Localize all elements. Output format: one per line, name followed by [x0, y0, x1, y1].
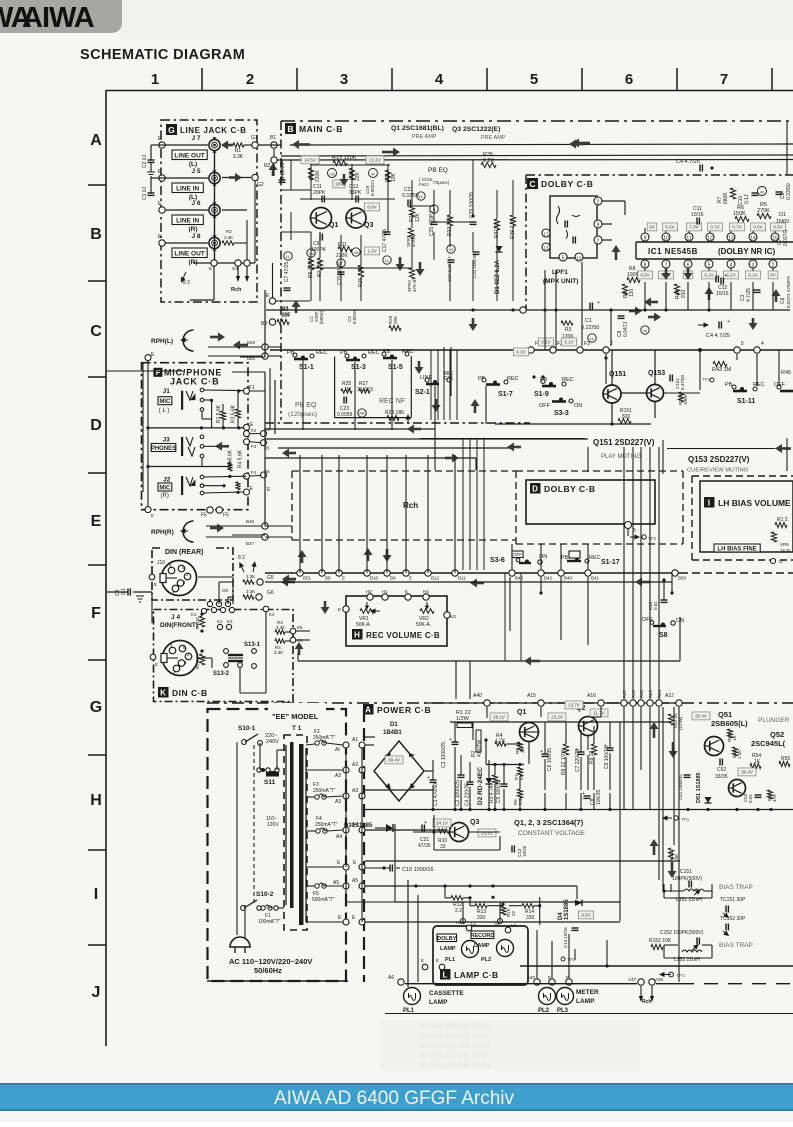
- svg-text:10/35: 10/35: [522, 845, 527, 857]
- wire J1 bottom rail: [148, 426, 247, 429]
- voltage 21.6V: [366, 156, 384, 164]
- svg-text:D1 02Z 6.2A: D1 02Z 6.2A: [495, 259, 501, 294]
- svg-text:A: A: [365, 706, 371, 715]
- svg-text:K: K: [160, 689, 166, 698]
- svg-text:LINE JACK C·B: LINE JACK C·B: [180, 126, 246, 135]
- capacitor C151 0.47/50: [670, 374, 685, 390]
- capacitor C14 10/16: [563, 927, 579, 948]
- arrow into jack J7: [221, 141, 233, 150]
- svg-text:A5: A5: [352, 878, 358, 884]
- wire q51 rail: [686, 808, 772, 811]
- arrows up down row573: [298, 548, 392, 614]
- wire power rails: [365, 722, 680, 922]
- svg-text:FeCr: FeCr: [419, 182, 430, 187]
- svg-text:A2: A2: [352, 762, 358, 768]
- svg-text:PRE AMP: PRE AMP: [481, 135, 506, 141]
- resistor R3 5.6K mic: [231, 391, 241, 430]
- svg-text:G1: G1: [251, 135, 258, 141]
- svg-text:1N60: 1N60: [776, 219, 789, 225]
- svg-text:29.1V: 29.1V: [493, 715, 505, 720]
- svg-text:100: 100: [282, 312, 291, 318]
- wire row573 to S-switch row: [512, 544, 588, 569]
- label Rch: [403, 501, 418, 510]
- nodes A40 A15 A16 A17 A19 A18 A25 A24 A2J: [424, 689, 682, 706]
- wire rail y310: [266, 307, 790, 313]
- transistor Q153: [647, 370, 666, 402]
- wire main left bus verticals: [265, 290, 275, 526]
- nodes B43 B42 B40 B41 B39: [509, 570, 687, 581]
- capacitor C6 right edge: [780, 276, 791, 308]
- inductor L151 22mH: [676, 887, 704, 903]
- resistor SPR3 47K-B: [407, 268, 417, 292]
- arrow right main: [382, 148, 400, 157]
- wire rail y966: [520, 940, 793, 968]
- wire A5 rail lamp: [365, 884, 577, 887]
- svg-text:11: 11: [686, 236, 691, 242]
- svg-text:DIN(FRONT): DIN(FRONT): [160, 622, 198, 629]
- circled M right: [758, 187, 767, 196]
- svg-text:12K: 12K: [415, 212, 421, 222]
- svg-text:C7 47/25: C7 47/25: [284, 261, 290, 282]
- test point TP2: [630, 534, 657, 541]
- svg-text:Q3: Q3: [470, 819, 479, 826]
- voltage 18V: [333, 180, 345, 188]
- nodes B46 B45 RPH: [208, 340, 281, 361]
- svg-text:E: E: [436, 958, 439, 963]
- svg-text:R2: R2: [264, 163, 271, 169]
- resistor R2 470/2W: [471, 730, 483, 757]
- svg-text:TC151 30P: TC151 30P: [720, 897, 746, 903]
- svg-text:LPF1: LPF1: [552, 269, 568, 276]
- svg-text:2SC945L(: 2SC945L(: [751, 739, 786, 748]
- switch S1-11: [725, 382, 793, 405]
- svg-text:PL2: PL2: [481, 957, 491, 963]
- resistor R151 820: [618, 408, 632, 424]
- svg-text:10/16: 10/16: [716, 291, 729, 297]
- svg-text:DOLBY C·B: DOLBY C·B: [541, 179, 593, 189]
- svg-text:17: 17: [543, 232, 549, 237]
- wire LPF1 out: [602, 201, 625, 240]
- diode D51 1S1885: [696, 772, 712, 803]
- svg-text:F6: F6: [201, 513, 207, 519]
- svg-text:0.7V: 0.7V: [710, 225, 719, 230]
- wire 661 verticals: [456, 573, 521, 699]
- box C DOLBY C.B: [526, 175, 793, 310]
- svg-text:F4: F4: [251, 470, 257, 475]
- wire y661 horizontal: [298, 617, 680, 666]
- resistor R35 2.2K: [481, 152, 496, 168]
- svg-text:B: B: [90, 226, 102, 243]
- switch S1-9: [532, 375, 573, 398]
- wire right edge verticals: [779, 121, 787, 471]
- label K1 node: [191, 608, 207, 617]
- svg-text:K2: K2: [217, 619, 223, 624]
- svg-text:G6: G6: [267, 590, 274, 596]
- svg-text:A37: A37: [628, 977, 637, 982]
- transformer T1: [284, 725, 307, 930]
- svg-text:J1: J1: [163, 388, 171, 395]
- svg-text:A20: A20: [527, 975, 536, 980]
- svg-text:LL: LL: [385, 258, 390, 263]
- resistor 3.3K to G5: [243, 574, 274, 585]
- wire IC bottom stubs: [645, 282, 773, 310]
- svg-text:120V: 120V: [267, 822, 279, 828]
- left frame border: [105, 90, 107, 1046]
- arrow up left S1-7: [471, 399, 480, 413]
- svg-text:MIC: MIC: [159, 399, 171, 405]
- resistor R9 220K: [308, 168, 321, 182]
- resistor R1 22 1/2W box: [456, 710, 472, 728]
- capacitor C31 100/25: [472, 252, 480, 278]
- capacitor C4 4.7/25: [676, 159, 714, 172]
- node B3 resistor R3 100: [261, 307, 290, 327]
- switch S8: [642, 617, 684, 639]
- svg-text:LL: LL: [419, 194, 424, 199]
- wire F left rail: [146, 361, 149, 509]
- svg-text:AC 110~120V/220~240V: AC 110~120V/220~240V: [229, 957, 312, 966]
- arrow up main left: [292, 300, 301, 313]
- svg-text:22: 22: [511, 910, 516, 916]
- resistor R21 10K: [385, 170, 397, 182]
- svg-text:TP1: TP1: [702, 377, 711, 382]
- svg-text:B59: B59: [678, 576, 687, 581]
- svg-text:B12: B12: [431, 576, 440, 581]
- svg-text:100mA"T": 100mA"T": [258, 919, 281, 925]
- arrows rch bottom: [639, 986, 654, 1005]
- resistor R4 5.6K mic: [235, 449, 243, 490]
- arrows dolby bottom extra: [629, 287, 781, 330]
- test point TP1 lower: [662, 815, 690, 822]
- wire main cluster horizontals: [281, 165, 473, 268]
- AC plug symbol: [230, 937, 250, 953]
- svg-text:0.027G: 0.027G: [783, 229, 789, 246]
- svg-text:D1: D1: [779, 212, 786, 218]
- svg-text:A6: A6: [388, 975, 394, 981]
- fuse F5 500mA T: [306, 878, 365, 903]
- resistor R7 5K: [514, 767, 524, 780]
- svg-text:+: +: [727, 319, 730, 325]
- svg-text:S13-2: S13-2: [213, 671, 230, 677]
- box L LAMP C.B rounded: [433, 926, 528, 985]
- voltage 1.2V: [364, 247, 379, 255]
- svg-text:LN: LN: [353, 250, 358, 255]
- resistor R9 33: [589, 726, 597, 790]
- wire lamp feeds: [346, 748, 395, 922]
- resistor R8 22 1/2W: [561, 722, 569, 790]
- svg-text:5: 5: [741, 341, 744, 347]
- voltage 30.4V bridge: [385, 756, 403, 764]
- IC1 NE545B body: [636, 242, 793, 259]
- svg-text:1.2V: 1.2V: [367, 249, 376, 254]
- pin 13: [542, 243, 550, 251]
- svg-text:Q153: Q153: [648, 370, 665, 377]
- svg-text:30.4V: 30.4V: [741, 770, 753, 775]
- svg-text:14: 14: [750, 236, 756, 242]
- svg-text:J 6: J 6: [191, 200, 200, 207]
- svg-text:M: M: [371, 172, 374, 177]
- svg-text:H3: H3: [450, 614, 456, 619]
- svg-text:S10-2: S10-2: [256, 891, 274, 898]
- voltage 30.4V q52: [738, 768, 756, 776]
- svg-text:A15: A15: [527, 693, 536, 699]
- svg-text:MAIN C·B: MAIN C·B: [299, 124, 343, 134]
- svg-text:6.1V: 6.1V: [704, 273, 713, 278]
- transistor Q51: [705, 737, 724, 756]
- svg-text:K3: K3: [227, 619, 233, 624]
- svg-text:LAMP C·B: LAMP C·B: [454, 970, 499, 980]
- svg-text:J 4: J 4: [171, 614, 180, 621]
- svg-text:LL: LL: [590, 336, 595, 341]
- label Q51 2SB605(L): [711, 710, 748, 728]
- capacitor C11 20PK: [313, 184, 326, 203]
- svg-text:33: 33: [440, 844, 446, 850]
- nodes B51..B11: [297, 570, 466, 581]
- arrow left row573: [282, 575, 484, 588]
- transistor Q151: [603, 371, 626, 403]
- svg-text:A2J: A2J: [665, 693, 674, 699]
- svg-text:POWER C·B: POWER C·B: [377, 705, 431, 715]
- svg-text:7: 7: [720, 71, 728, 88]
- wire dolby mid verticals: [545, 262, 757, 386]
- lamp PL3 meter: [557, 988, 574, 1015]
- wire top arrow line: [290, 139, 793, 150]
- resistor R37 10: [494, 219, 500, 238]
- Rch arrow bottom: [231, 266, 249, 293]
- svg-text:C9 100/16: C9 100/16: [604, 746, 610, 769]
- label Q123 constant voltage: [514, 818, 585, 837]
- label BIAS TRAP 1: [719, 884, 753, 891]
- svg-text:PHONES: PHONES: [151, 446, 176, 452]
- node B2: [264, 157, 277, 169]
- svg-text:1: 1: [151, 71, 159, 88]
- svg-text:C2 1000/25: C2 1000/25: [455, 780, 461, 806]
- resistor R13 330: [470, 896, 505, 921]
- switch S11: [257, 768, 279, 786]
- svg-text:S10-1: S10-1: [238, 725, 256, 732]
- jack J7 LINE OUT (L): [158, 135, 220, 168]
- nodes H2 H1 E H4 H3 E: [338, 589, 456, 619]
- svg-text:Q1: Q1: [329, 222, 338, 229]
- resistor R52 1.2K: [732, 747, 742, 759]
- svg-text:(L): (L): [189, 161, 197, 168]
- rec/play head RPH(L): [151, 330, 248, 351]
- switch S10-1: [238, 725, 262, 745]
- capacitor C29 100/35: [469, 192, 477, 224]
- svg-text:IC1 NE545B: IC1 NE545B: [648, 247, 698, 256]
- svg-text:500mA"T": 500mA"T": [312, 897, 335, 903]
- resistor R7 150: [317, 258, 323, 277]
- diode D4 1S1885: [558, 886, 582, 920]
- box B MAIN C.B top border: [281, 121, 793, 420]
- wire lamp row: [405, 983, 793, 985]
- node A2 row: [306, 762, 365, 779]
- svg-text:DIN (REAR): DIN (REAR): [165, 549, 204, 556]
- capacitor C152 100PK 500V: [660, 930, 704, 945]
- resistor R6 150K: [733, 205, 749, 222]
- wire center bus verticals: [431, 350, 457, 420]
- svg-text:S3-3: S3-3: [554, 410, 569, 417]
- svg-text:3.3K: 3.3K: [274, 650, 283, 655]
- svg-text:0.001K: 0.001K: [352, 310, 357, 324]
- switch S1-7: [478, 376, 519, 398]
- svg-text:0.1J: 0.1J: [744, 194, 750, 204]
- svg-text:13: 13: [728, 236, 734, 242]
- svg-text:DOLBY C·B: DOLBY C·B: [544, 484, 596, 494]
- box F MIC/PHONE JACK C.B: [142, 363, 249, 510]
- wire power verticals: [473, 722, 620, 921]
- junction node cluster: [207, 601, 234, 612]
- arrows dolby: [612, 245, 693, 280]
- svg-text:B41: B41: [591, 576, 600, 581]
- svg-text:B9: B9: [390, 576, 396, 581]
- capacitor C12 10/16: [716, 278, 729, 298]
- svg-text:47K-B: 47K-B: [412, 279, 417, 292]
- wire node row y573: [265, 572, 680, 574]
- voltage 6.2V 6.1V boxes left: [513, 338, 576, 356]
- svg-text:23.2V: 23.2V: [551, 715, 563, 720]
- svg-text:H: H: [90, 792, 102, 809]
- svg-text:G: G: [90, 699, 102, 716]
- svg-text:A5: A5: [333, 880, 339, 886]
- transistor Q2 power: [576, 705, 598, 736]
- svg-text:3.3K: 3.3K: [224, 235, 233, 240]
- resistor R51 1K: [668, 713, 683, 730]
- svg-text:LAMP: LAMP: [474, 943, 490, 949]
- label A POWER C.B: [363, 704, 431, 715]
- capacitor C23 0.0039 PP: [337, 397, 366, 419]
- svg-text:D1: D1: [390, 722, 398, 728]
- switch row S1-3: [340, 350, 380, 371]
- svg-text:G: G: [168, 125, 175, 135]
- svg-text:F1: F1: [249, 385, 255, 391]
- jack J3 PHONES: [151, 435, 204, 458]
- svg-text:( L ): ( L ): [159, 408, 169, 414]
- svg-text:270K: 270K: [757, 208, 770, 214]
- svg-text:B47: B47: [246, 541, 255, 546]
- node 5 dolby D: [625, 522, 637, 537]
- node E row power: [306, 860, 365, 870]
- resistor R4 3.3K din: [274, 637, 303, 655]
- svg-text:2: 2: [246, 71, 254, 88]
- box LPF1 sub-circuit: [550, 196, 597, 258]
- wire Q3 loop: [413, 815, 500, 850]
- svg-text:H1: H1: [382, 589, 388, 594]
- wire J1 contacts: [202, 389, 243, 428]
- capacitor C8 0.047J: [617, 316, 649, 337]
- svg-text:6.1V: 6.1V: [564, 340, 573, 345]
- rec/play head RPH(R): [151, 521, 224, 542]
- svg-text:Q1 2SC1681(BL): Q1 2SC1681(BL): [391, 125, 444, 132]
- arrow up K6: [295, 642, 304, 655]
- svg-text:REC: REC: [589, 555, 601, 561]
- svg-text:J3: J3: [163, 437, 171, 444]
- svg-text:LAMP: LAMP: [440, 946, 456, 952]
- svg-text:0.047J: 0.047J: [623, 321, 629, 337]
- node G2: [222, 174, 264, 188]
- voltage 6.6V: [364, 203, 379, 211]
- jack J2 MIC R: [158, 475, 204, 499]
- svg-text:0.0059: 0.0059: [337, 412, 353, 418]
- svg-text:C29 100/35: C29 100/35: [469, 192, 475, 218]
- wire G to MAIN links: [255, 145, 281, 263]
- svg-text:6.1V: 6.1V: [748, 273, 757, 278]
- svg-text:C152 100PK(500V): C152 100PK(500V): [660, 930, 704, 936]
- svg-text:REC VOLUME C·B: REC VOLUME C·B: [366, 631, 440, 640]
- svg-text:PLAY MUTING: PLAY MUTING: [601, 454, 641, 460]
- label METER LAMP: [576, 989, 599, 1005]
- svg-text:50K-A: 50K-A: [356, 622, 371, 628]
- svg-text:4.7/25: 4.7/25: [746, 288, 752, 302]
- jack J1 MIC L: [158, 388, 204, 414]
- wire center bus verticals lower: [463, 438, 484, 570]
- node I2: [771, 559, 784, 565]
- bottom node row E G4 G5: [193, 260, 255, 271]
- box REC NF region: [335, 356, 412, 418]
- svg-text:I: I: [94, 886, 98, 903]
- trimmer TC151 30P: [720, 897, 746, 920]
- svg-text:C151: C151: [680, 869, 692, 875]
- svg-text:1K: 1K: [732, 735, 737, 741]
- arrow left G5: [281, 578, 295, 587]
- resistor R4 4.7K: [495, 733, 506, 746]
- svg-text:"EE" MODEL: "EE" MODEL: [272, 712, 319, 721]
- svg-text:Q3 2SC1222(E): Q3 2SC1222(E): [452, 126, 500, 133]
- svg-text:R2: R2: [226, 229, 232, 234]
- svg-text:M: M: [449, 247, 452, 252]
- capacitor C12 10/16 plus cap: [716, 273, 727, 283]
- wire double line upper: [281, 155, 793, 160]
- svg-text:S1-11: S1-11: [737, 398, 755, 405]
- label PLUNGER: [758, 717, 790, 724]
- capacitor C1 0J: [142, 178, 166, 200]
- svg-text:100PK(500V): 100PK(500V): [672, 876, 702, 882]
- svg-text:680K: 680K: [723, 192, 729, 204]
- svg-text:L2: L2: [511, 923, 517, 928]
- scan background shading: [120, 0, 793, 40]
- resistor 3.3K to G6: [243, 589, 274, 600]
- resistor R1 2 bias: [775, 517, 789, 528]
- svg-text:LINE IN: LINE IN: [176, 217, 199, 224]
- svg-text:G8: G8: [222, 588, 229, 593]
- fuse F1 100mA T: [257, 905, 284, 925]
- svg-text:4: 4: [761, 341, 764, 347]
- resistor R67 47K: [767, 790, 777, 802]
- svg-text:A3: A3: [335, 799, 341, 805]
- svg-text:G2: G2: [257, 182, 264, 188]
- svg-text:BIAS TRAP: BIAS TRAP: [719, 884, 753, 891]
- label Q52 2SC945L: [751, 730, 786, 748]
- arrow phones: [204, 442, 229, 451]
- IC1 label: [648, 247, 776, 256]
- resistor R54 1K: [750, 753, 761, 769]
- svg-text:D51 1S1885: D51 1S1885: [696, 772, 702, 803]
- svg-text:S3-6: S3-6: [490, 557, 505, 564]
- svg-text:[500V]: [500V]: [319, 311, 324, 324]
- test point TP1 upper: [702, 377, 714, 382]
- svg-text:E: E: [409, 576, 412, 581]
- svg-text:20PK: 20PK: [313, 190, 326, 196]
- svg-text:3.3K: 3.3K: [246, 589, 255, 594]
- label BIAS TRAP 2: [719, 942, 753, 949]
- svg-text:1/2W: 1/2W: [456, 716, 470, 722]
- pin 5: [559, 253, 567, 262]
- capacitor C9 100/16: [604, 722, 614, 790]
- label H REC VOLUME: [352, 629, 440, 640]
- label J4 DIN FRONT: [160, 614, 198, 629]
- capacitor C4 220/35: [465, 762, 474, 810]
- svg-text:E: E: [342, 576, 345, 581]
- svg-text:B46: B46: [247, 340, 256, 345]
